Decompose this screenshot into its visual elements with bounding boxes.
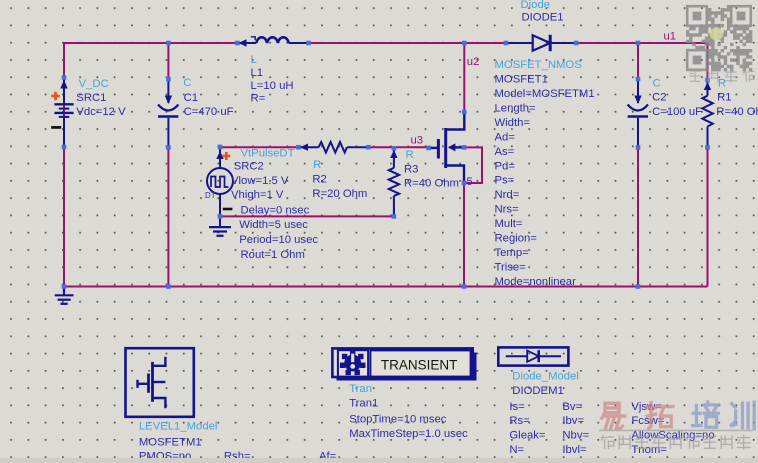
svg-text:Nbv=: Nbv= <box>562 430 589 442</box>
svg-text:L=10 uH: L=10 uH <box>251 80 294 92</box>
svg-text:MOSFET_NMOS: MOSFET_NMOS <box>495 59 583 71</box>
svg-text:R: R <box>313 159 321 171</box>
svg-text:Tran: Tran <box>349 383 372 395</box>
svg-text:V_DC: V_DC <box>79 78 109 90</box>
wire C1 branch lower <box>167 148 169 287</box>
gear icon <box>340 350 366 375</box>
svg-text:C=470 uF: C=470 uF <box>184 106 234 118</box>
R1 pin arrow <box>704 82 711 90</box>
wire R1 branch lower <box>707 148 709 287</box>
wire SRC2 bottom to R3 bottom <box>220 215 394 217</box>
capacitor C2 <box>637 79 639 103</box>
junction SRC1 pin2 <box>62 145 67 150</box>
svg-text:u2: u2 <box>467 56 480 68</box>
junction C2 top rail <box>636 41 641 46</box>
junction R2 pin1 <box>296 145 301 150</box>
svg-text:R=40 Ohm: R=40 Ohm <box>716 106 758 118</box>
junction DIODE1 pin1 <box>504 41 509 46</box>
svg-text:Trise=: Trise= <box>495 262 527 274</box>
svg-text:Is=: Is= <box>509 401 525 413</box>
watermark wechat contact text <box>690 71 700 81</box>
junction R3 pin1 node u3 <box>392 146 397 151</box>
junction C1 pin2 <box>166 145 171 150</box>
transistor MOSFET1 u2 <box>446 112 465 130</box>
svg-text:VtPulseDT: VtPulseDT <box>241 148 295 160</box>
svg-text:Ibvl=: Ibvl= <box>562 444 587 456</box>
MOSFET bulk arrow <box>448 143 456 151</box>
svg-text:Length=: Length= <box>495 102 537 114</box>
R3 pin arrow <box>390 150 397 158</box>
junction MOSFET1 bulk <box>462 145 467 150</box>
svg-text:PMOS=no: PMOS=no <box>139 451 191 459</box>
ground (bottom rail) <box>63 287 65 296</box>
svg-text:R3: R3 <box>404 163 418 175</box>
wire bottom rail <box>64 286 708 288</box>
svg-text:Diode_Model: Diode_Model <box>512 371 579 383</box>
junction L1 pin2 <box>306 41 311 46</box>
svg-text:MOSFETM1: MOSFETM1 <box>139 436 202 448</box>
svg-text:R1: R1 <box>717 92 731 104</box>
svg-text:TRANSIENT: TRANSIENT <box>381 358 458 373</box>
resistor R2 <box>299 146 319 148</box>
svg-text:Diode: Diode <box>521 0 551 11</box>
svg-text:C2: C2 <box>652 91 666 103</box>
svg-text:Region=: Region= <box>495 233 538 245</box>
svg-text:R=: R= <box>251 92 266 104</box>
svg-text:Tran1: Tran1 <box>349 398 378 410</box>
wire bulk loop <box>464 147 482 183</box>
svg-text:C=100 uF: C=100 uF <box>652 106 702 118</box>
junction source bottom rail <box>462 284 467 289</box>
svg-text:Rout=1 Ohm: Rout=1 Ohm <box>241 249 305 261</box>
SRC1 plus <box>51 92 59 100</box>
svg-text:Mult=: Mult= <box>495 218 523 230</box>
svg-text:R: R <box>406 149 414 161</box>
svg-text:L: L <box>251 54 257 66</box>
capacitor C1 <box>167 79 169 103</box>
C2 pin arrow <box>634 96 641 105</box>
SRC1 minus <box>51 126 61 129</box>
svg-text:Nrs=: Nrs= <box>495 204 520 216</box>
SRC2 pin arrow <box>216 151 223 159</box>
svg-text:Ad=: Ad= <box>495 131 516 143</box>
junction C2 bottom rail <box>636 284 641 289</box>
svg-text:Period=10 usec: Period=10 usec <box>239 234 318 246</box>
svg-text:SRC2: SRC2 <box>234 161 264 173</box>
wire top rail mid segment <box>309 42 506 44</box>
svg-text:Delay=0 nsec: Delay=0 nsec <box>241 205 310 217</box>
svg-text:C: C <box>653 77 661 89</box>
svg-text:DIODEM1: DIODEM1 <box>512 385 563 397</box>
svg-text:L1: L1 <box>251 67 264 79</box>
svg-text:C: C <box>183 77 191 89</box>
wire top rail left segment + left vertical <box>64 43 237 287</box>
diode DIODE1 <box>506 42 533 44</box>
svg-text:u1: u1 <box>664 31 677 43</box>
svg-text:DIODE1: DIODE1 <box>522 12 564 24</box>
watermark slogan <box>601 436 614 449</box>
svg-text:SRC1: SRC1 <box>76 92 106 104</box>
junction SRC2 pin1 <box>218 145 223 150</box>
resistor R1 <box>707 80 709 96</box>
svg-text:Vdc=12 V: Vdc=12 V <box>76 106 126 118</box>
svg-text:Temp=: Temp= <box>495 247 530 259</box>
svg-text:MaxTimeStep=1.0 usec: MaxTimeStep=1.0 usec <box>349 428 468 440</box>
watermark QR code <box>686 5 752 71</box>
watermark underline <box>599 429 753 431</box>
C1 pin arrow <box>165 96 172 105</box>
svg-text:Vhigh=1 V: Vhigh=1 V <box>231 189 284 201</box>
model box Diode_Model DIODEM1 <box>498 347 568 365</box>
junction C1 bottom rail <box>166 284 171 289</box>
svg-text:Model=MOSFETM1: Model=MOSFETM1 <box>495 88 595 100</box>
svg-text:MOSFET1: MOSFET1 <box>495 73 548 85</box>
ground (SRC2) <box>209 226 231 228</box>
junction MOSFET1 source <box>462 181 467 186</box>
svg-text:C1: C1 <box>184 92 198 104</box>
junction R1 pin2 <box>705 145 710 150</box>
svg-text:5: 5 <box>467 176 473 188</box>
svg-text:Tnom=: Tnom= <box>631 444 667 456</box>
junction DIODE1 pin2 <box>574 41 579 46</box>
svg-text:Gleak=: Gleak= <box>509 430 546 442</box>
svg-text:AllowScaling=no: AllowScaling=no <box>631 430 714 442</box>
svg-text:DT: DT <box>205 191 216 200</box>
svg-text:Ps=: Ps= <box>495 175 515 187</box>
SRC2 minus <box>223 208 233 211</box>
junction R1 pin1 <box>705 78 710 83</box>
wire top rail right segment <box>576 42 707 44</box>
svg-text:Af=: Af= <box>319 451 337 459</box>
svg-text:Mode=nonlinear: Mode=nonlinear <box>495 276 577 288</box>
svg-text:u3: u3 <box>411 135 424 147</box>
svg-text:Width=: Width= <box>495 117 531 129</box>
svg-text:Pd=: Pd= <box>495 160 516 172</box>
wire R1 branch upper <box>707 43 709 80</box>
wire R2 to gate node u3 <box>368 146 428 148</box>
wire C2 branch lower <box>637 148 639 287</box>
svg-text:Nrd=: Nrd= <box>495 189 520 201</box>
junction bottom rail ground <box>62 284 67 289</box>
junction C2 pin1 <box>636 77 641 82</box>
junction C2 pin2 <box>636 145 641 150</box>
svg-text:LEVEL1_Model: LEVEL1_Model <box>139 421 218 433</box>
svg-text:R=40 Ohm: R=40 Ohm <box>404 178 459 190</box>
wire C1 branch upper <box>167 43 169 79</box>
svg-text:Rs=: Rs= <box>509 415 530 427</box>
junction SRC1 pin1 <box>62 75 67 80</box>
svg-text:N=: N= <box>509 444 524 456</box>
junction MOSFET1 gate <box>426 146 431 151</box>
resistor R3 <box>393 148 395 168</box>
wire SRC2 to R2 <box>220 146 299 148</box>
wire u2 drain branch <box>463 43 465 112</box>
svg-text:As=: As= <box>495 146 515 158</box>
watermark brand name <box>602 403 625 428</box>
svg-text:Bv=: Bv= <box>562 401 582 413</box>
wire C2 branch upper <box>637 43 639 79</box>
junction R2 pin2 <box>366 145 371 150</box>
L1 pin arrow <box>239 39 247 46</box>
inductor L1 <box>237 42 256 44</box>
svg-text:Width=5 usec: Width=5 usec <box>239 219 308 231</box>
svg-text:R2: R2 <box>312 174 326 186</box>
model box LEVEL1_Model MOSFETM1 <box>126 348 194 417</box>
junction MOSFET1 drain <box>462 110 467 115</box>
SRC2 plus <box>222 152 230 160</box>
svg-text:StopTime=10 msec: StopTime=10 msec <box>349 413 447 425</box>
R2 pin arrow <box>300 144 308 151</box>
junction u2 drain rail <box>462 41 467 46</box>
svg-text:Vlow=1.5 V: Vlow=1.5 V <box>231 175 289 187</box>
svg-text:R=20 Ohm: R=20 Ohm <box>312 188 367 200</box>
svg-text:Rsh=: Rsh= <box>224 451 251 459</box>
junction L1 pin1 <box>235 41 240 46</box>
svg-text:Ibv=: Ibv= <box>562 415 584 427</box>
simulation controller TRANSIENT Tran1 <box>337 353 477 381</box>
svg-text:R: R <box>718 78 726 90</box>
wire MOSFET source down <box>463 183 465 287</box>
junction C1 pin1 <box>166 77 171 82</box>
wire SRC1 lower <box>63 147 65 287</box>
junction C1 top rail <box>166 41 171 46</box>
junction R3 pin2 <box>392 214 397 219</box>
junction SRC2 pin2 <box>218 214 223 219</box>
pulse source VtPulseDT SRC2 <box>219 147 221 168</box>
SRC1 pin arrow <box>60 80 67 89</box>
dc source V_DC SRC1 <box>63 78 65 103</box>
